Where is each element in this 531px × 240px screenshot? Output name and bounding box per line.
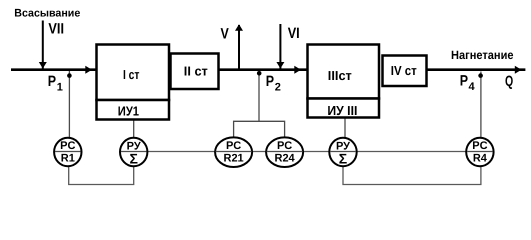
svg-text:Σ: Σ bbox=[339, 151, 347, 167]
box: compressor stage IV ст bbox=[383, 56, 427, 87]
wire: instrument mid bus РУ1-PC R21-PC R24-РУ2-PC R4 bbox=[147, 151, 466, 153]
svg-text:Нагнетание: Нагнетание bbox=[451, 48, 514, 62]
svg-text:P: P bbox=[266, 73, 274, 90]
arrow VI: inlet branch downward bbox=[279, 24, 281, 69]
wire: РУ2 to PC R4 bottom U-loop bbox=[343, 165, 481, 185]
node: P2 tap junction dot bbox=[257, 71, 262, 76]
wire: P4 pressure tap down to PC R4 bbox=[480, 72, 482, 139]
svg-text:PC: PC bbox=[472, 140, 487, 152]
svg-text:V: V bbox=[221, 25, 229, 42]
instrument: controller PC R21 bbox=[215, 137, 252, 167]
svg-text:1: 1 bbox=[57, 82, 63, 94]
svg-text:VI: VI bbox=[288, 25, 300, 42]
svg-text:IIIст: IIIст bbox=[328, 68, 352, 83]
wire: P1 pressure tap down to PC R1 bbox=[68, 71, 70, 138]
node: P1 tap junction dot bbox=[67, 73, 72, 78]
svg-text:IV ст: IV ст bbox=[391, 63, 417, 78]
box: compressor stage I ст bbox=[97, 45, 170, 101]
box: compressor stage III ст bbox=[308, 45, 380, 99]
svg-text:Всасывание: Всасывание bbox=[14, 8, 80, 20]
svg-text:Σ: Σ bbox=[129, 151, 137, 167]
instrument: controller PC R4 bbox=[466, 138, 493, 166]
svg-text:ИУ III: ИУ III bbox=[327, 103, 357, 118]
svg-text:R21: R21 bbox=[224, 153, 244, 165]
wire: ИУ III to РУ2 bbox=[344, 118, 346, 139]
svg-text:P: P bbox=[48, 73, 56, 90]
node: P4 tap junction dot bbox=[478, 73, 483, 78]
svg-text:P: P bbox=[460, 72, 468, 89]
svg-text:PC: PC bbox=[60, 140, 75, 152]
instrument: summing regulator РУ Σ (right) bbox=[329, 138, 356, 167]
svg-text:PC: PC bbox=[277, 140, 292, 152]
wire: PC R1 to РУ1 bottom U-loop bbox=[69, 165, 134, 185]
svg-text:II ст: II ст bbox=[184, 64, 208, 79]
svg-text:PC: PC bbox=[226, 140, 241, 152]
box: actuator ИУ III under stage III bbox=[308, 99, 380, 118]
arrow V: vent branch upward bbox=[238, 25, 240, 69]
pipe: interstage line II ст to III ст bbox=[220, 68, 307, 71]
svg-text:2: 2 bbox=[275, 82, 281, 94]
arrow VII: suction side inlet branch bbox=[42, 21, 44, 70]
svg-text:VII: VII bbox=[48, 21, 64, 38]
svg-text:Q: Q bbox=[505, 73, 513, 90]
wire: P2 pressure tap tee down to PC R21 and PC R24 bbox=[234, 121, 285, 138]
svg-text:ИУ1: ИУ1 bbox=[118, 103, 139, 118]
pipe: discharge line out of IV ст bbox=[428, 68, 526, 71]
box: actuator ИУ1 under stage I bbox=[97, 100, 170, 120]
svg-text:I ст: I ст bbox=[123, 67, 140, 82]
box: compressor stage II ст bbox=[171, 54, 219, 90]
instrument: controller PC R1 bbox=[54, 138, 81, 166]
instrument: controller PC R24 bbox=[266, 137, 303, 167]
instrument: summing regulator РУ Σ (left) bbox=[120, 138, 147, 167]
svg-text:R1: R1 bbox=[61, 153, 75, 165]
wire: ИУ1 to РУ1 bbox=[133, 120, 135, 139]
svg-text:4: 4 bbox=[469, 81, 476, 93]
pipe: suction line into I ст bbox=[11, 68, 96, 71]
svg-text:R24: R24 bbox=[275, 153, 296, 165]
svg-text:R4: R4 bbox=[473, 153, 488, 165]
